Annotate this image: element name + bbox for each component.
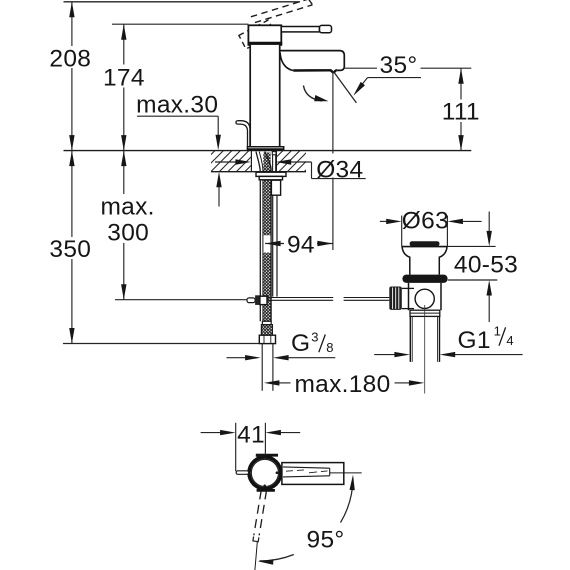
arrowhead 174 top bbox=[121, 24, 126, 40]
35 deg slant line from spout bbox=[333, 71, 356, 103]
arrowhead 94 left bbox=[265, 241, 281, 246]
svg-text:G1: G1 bbox=[458, 327, 491, 354]
arrowhead 350 bottom bbox=[69, 328, 74, 344]
arrowhead 111 top bbox=[458, 68, 463, 84]
41 extension line left bbox=[235, 423, 237, 471]
svg-text:4: 4 bbox=[506, 333, 513, 348]
svg-text:40-53: 40-53 bbox=[454, 251, 518, 278]
dia63 extension line right bbox=[446, 216, 448, 247]
35 deg leader diagonal bbox=[357, 78, 368, 92]
arrowhead swivel bbox=[314, 95, 328, 101]
horizontal pop-up rod left segment bbox=[267, 297, 333, 299]
arrowhead 41 left bbox=[220, 430, 236, 435]
arrowhead 40-53 bottom bbox=[487, 280, 492, 296]
top view centerline to right bbox=[330, 472, 362, 474]
spout bottom bold edge with aerator notch bbox=[293, 70, 337, 72]
arrowhead 111 bottom bbox=[458, 135, 463, 151]
top view bottom chord flat bbox=[257, 489, 275, 492]
pop-up rod hook behind body bbox=[237, 124, 247, 146]
text mask 350 bbox=[48, 237, 92, 259]
pop-up rod bracket bbox=[271, 180, 280, 195]
drain pop-up cap bbox=[410, 241, 440, 246]
arrowhead G38 right bbox=[273, 355, 289, 360]
drain centerline bbox=[424, 305, 426, 394]
arrowhead max180 left bbox=[264, 380, 280, 385]
dia63 extension line left bbox=[401, 216, 403, 247]
drain flange right side bbox=[439, 247, 447, 275]
G3/8 hose collar bbox=[262, 321, 271, 324]
rod crank dark block bbox=[255, 295, 260, 305]
G38 dim tail left bbox=[227, 357, 247, 359]
top view lever bar bbox=[282, 463, 344, 485]
dashed lever end cap bbox=[253, 537, 259, 542]
40-53 extension top bbox=[447, 245, 495, 247]
counter hole right wall bbox=[275, 151, 277, 172]
hose braid texture upper bbox=[263, 153, 270, 236]
G3/8 hex nut bbox=[259, 335, 275, 343]
top view hidden spout end bbox=[329, 468, 331, 476]
svg-text:174: 174 bbox=[103, 64, 145, 91]
text mask dia34 bbox=[315, 154, 366, 178]
dia63 dim tail left bbox=[380, 220, 389, 222]
spout outline bbox=[280, 51, 345, 71]
arrowhead dia34 right bbox=[276, 159, 292, 164]
arrowhead 94 right bbox=[317, 241, 333, 246]
G114 dim tail right bbox=[454, 354, 523, 356]
dia63 dim tail right bbox=[460, 220, 482, 222]
top view top chord flat bbox=[256, 454, 278, 457]
countertop top surface line bbox=[64, 150, 472, 152]
G38 dim tail right bbox=[288, 357, 336, 359]
arrowhead 35deg leader bbox=[353, 82, 365, 96]
svg-text:95°: 95° bbox=[307, 526, 345, 553]
lever axis line to image bottom bbox=[255, 542, 257, 570]
faucet base flange bbox=[247, 147, 283, 151]
max30 lower arrow tail bbox=[218, 187, 220, 207]
dashed handle housing (raised position) bbox=[239, 20, 275, 49]
lever end cap bbox=[320, 25, 332, 32]
dia34 dim tail right bbox=[288, 161, 312, 163]
hose braid texture lower bbox=[263, 253, 270, 322]
arrowhead 95deg right bbox=[350, 475, 355, 491]
svg-text:8: 8 bbox=[326, 340, 333, 355]
drain tailpipe bbox=[409, 316, 411, 362]
svg-text:Ø34: Ø34 bbox=[316, 156, 363, 183]
mounting washer bbox=[256, 172, 286, 176]
faucet cartridge housing bbox=[248, 25, 281, 45]
aerator axis vertical line bbox=[332, 71, 334, 250]
dashed lever down position left line bbox=[254, 491, 261, 536]
svg-text:Ø63: Ø63 bbox=[402, 208, 449, 235]
arrowhead 40-53 top bbox=[487, 231, 492, 247]
max30 leader drop bbox=[217, 116, 219, 136]
svg-text:1: 1 bbox=[494, 324, 501, 339]
arrowhead 174 bottom bbox=[121, 135, 126, 151]
drain body walls bbox=[408, 283, 410, 310]
drain ball circle bbox=[415, 289, 434, 308]
top view body circle inner bbox=[251, 459, 278, 486]
arrowhead 41 right bbox=[265, 430, 281, 435]
max180 tail right bbox=[395, 382, 411, 384]
rod crank small cylinder bbox=[247, 298, 255, 303]
arrowhead max300 bottom bbox=[121, 284, 126, 300]
arrowhead max30 up bbox=[216, 172, 221, 188]
svg-text:35°: 35° bbox=[380, 52, 418, 79]
text mask 94 bbox=[284, 233, 317, 254]
mounting nut bbox=[259, 176, 282, 179]
dia34 underline bbox=[312, 178, 366, 180]
drain knurled knob bbox=[389, 287, 402, 310]
svg-text:max.: max. bbox=[100, 193, 154, 220]
max300 bottom line to rod bbox=[115, 299, 247, 301]
35 deg reference line left bbox=[345, 67, 377, 69]
drain side port lines bbox=[402, 287, 414, 289]
svg-text:max.30: max.30 bbox=[136, 91, 218, 118]
drain flange top edge bbox=[402, 246, 448, 248]
counter hole left wall bbox=[250, 151, 252, 172]
35 deg leader line bbox=[368, 77, 422, 79]
top view top-left dark tab bbox=[257, 454, 266, 457]
174 tick line bbox=[112, 23, 248, 25]
111 dimension line bbox=[460, 68, 462, 150]
flexible hose right wall bbox=[265, 152, 271, 322]
flexible hose left outer wall bbox=[256, 152, 260, 322]
arrowhead 350 top bbox=[69, 151, 74, 167]
lever bar bbox=[281, 27, 319, 32]
40-53 extension bottom bbox=[448, 279, 498, 281]
arrowhead max30 down bbox=[216, 135, 221, 151]
top view set-screw dot right bbox=[276, 471, 279, 474]
35 deg reference line right bbox=[421, 67, 472, 69]
max30 leader underline bbox=[137, 115, 218, 117]
svg-text:300: 300 bbox=[107, 219, 149, 246]
svg-text:208: 208 bbox=[49, 45, 91, 72]
41 dim tail left bbox=[201, 432, 222, 434]
208 top tick line bbox=[64, 1, 301, 3]
housing bold bottom edge bbox=[248, 42, 283, 45]
svg-text:94: 94 bbox=[287, 231, 315, 258]
swivel arc arrow curve bbox=[303, 86, 322, 101]
arrowhead 208 top bbox=[69, 2, 74, 17]
174/max300 dimension line bbox=[123, 24, 125, 300]
arrowhead 208 bottom bbox=[69, 135, 74, 151]
pop-up rod top cap bbox=[272, 152, 276, 155]
41 extension line right bbox=[264, 423, 266, 455]
arrowhead G114 left bbox=[394, 352, 410, 357]
G3/8 pipe below nut bbox=[261, 344, 263, 391]
svg-text:G: G bbox=[291, 330, 310, 357]
countertop bottom line bbox=[211, 171, 306, 173]
pop-up rod in hole bbox=[272, 155, 274, 172]
max180 tail left bbox=[279, 382, 291, 384]
drain coupling band bbox=[410, 310, 440, 316]
faucet body column bbox=[250, 45, 280, 146]
95 deg arc segment left bbox=[260, 555, 294, 561]
svg-text:111: 111 bbox=[442, 99, 480, 126]
dashed lever down position right line bbox=[259, 491, 266, 536]
40-53 dimension line lower bbox=[488, 294, 490, 322]
top view hidden spout bottom edge bbox=[283, 476, 330, 477]
208/350 dimension line bbox=[71, 2, 73, 344]
top view dot bottom bbox=[263, 485, 266, 488]
40-53 dimension line upper bbox=[488, 212, 490, 233]
G114 dim tail left bbox=[374, 354, 395, 356]
horizontal pop-up rod right segment bbox=[344, 297, 390, 299]
arrowhead G114 right bbox=[440, 352, 456, 357]
94 dimension line bbox=[265, 243, 333, 245]
arrowhead max300 top bbox=[121, 151, 126, 167]
41 dim tail right bbox=[280, 432, 300, 434]
svg-text:max.180: max.180 bbox=[294, 371, 390, 398]
pop-up rod vertical bbox=[272, 195, 274, 296]
top view hidden spout top edge bbox=[283, 467, 330, 468]
G3/8 threaded nipple bbox=[261, 325, 272, 336]
dia34 dim tail left bbox=[215, 161, 238, 163]
text mask max300 bbox=[99, 194, 156, 243]
svg-text:350: 350 bbox=[49, 236, 91, 263]
arrowhead dia63 right bbox=[447, 219, 463, 224]
350 bottom tick line bbox=[63, 343, 259, 345]
arrowhead G38 left bbox=[245, 355, 261, 360]
text mask 174 bbox=[102, 65, 146, 88]
flexible hose inner line bbox=[259, 152, 263, 322]
countertop hatching right block bbox=[276, 151, 306, 172]
countertop hatching left block bbox=[211, 151, 251, 172]
95 deg arc segment right bbox=[341, 478, 354, 522]
text mask 208 bbox=[48, 46, 92, 68]
arrowhead max180 right bbox=[409, 380, 425, 385]
drain rubber seal bbox=[402, 275, 447, 283]
dashed lever (raised position) bbox=[251, 0, 313, 23]
base bold bottom edge bbox=[247, 148, 283, 150]
top view spout sketch strokes bbox=[286, 470, 308, 472]
svg-text:41: 41 bbox=[237, 422, 265, 449]
top view body circle outer bbox=[249, 457, 281, 489]
svg-text:3: 3 bbox=[311, 330, 318, 345]
arrowhead dia34 left bbox=[235, 159, 251, 164]
arrowhead 95deg left bbox=[258, 559, 274, 564]
drain flange left side bbox=[402, 247, 410, 275]
dia34 leader corner bbox=[311, 162, 313, 179]
rod crank white block bbox=[260, 296, 267, 304]
spout root fillet bbox=[280, 53, 293, 71]
arrowhead dia63 left bbox=[386, 219, 402, 224]
top view left tab bbox=[236, 471, 248, 475]
text mask 111 bbox=[440, 100, 482, 123]
